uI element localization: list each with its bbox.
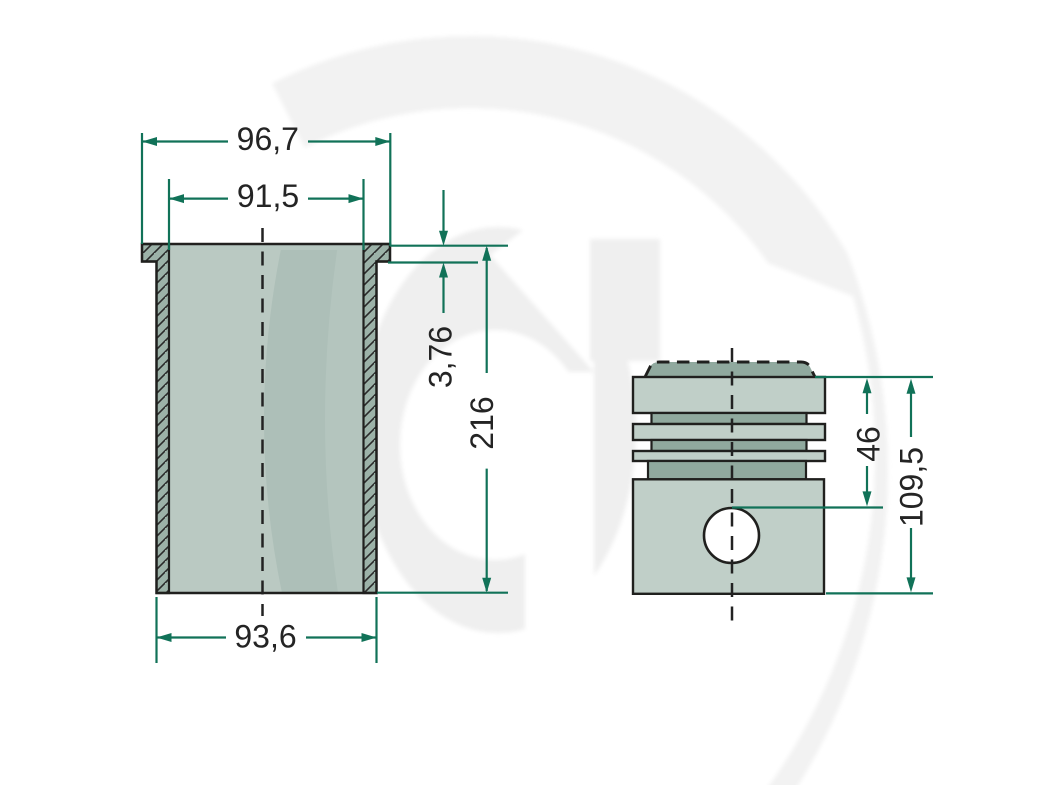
dim 93,6 left arrow bbox=[157, 633, 172, 642]
dim 3,76 lower arrow bbox=[442, 276, 444, 313]
dim 216 line lower bbox=[486, 469, 488, 591]
liner right wall hatch bbox=[364, 244, 391, 593]
svg-text:96,7: 96,7 bbox=[237, 121, 299, 157]
dim 46 bottom arrow bbox=[866, 466, 868, 492]
dim 3,76 upper arrow bbox=[442, 190, 444, 232]
svg-text:216: 216 bbox=[464, 396, 500, 449]
liner cavity shade mid bbox=[264, 244, 364, 593]
dim 91,5 right extension line bbox=[362, 179, 364, 250]
dim 3,76 bottom reference line bbox=[388, 261, 478, 263]
dim 93,6 right arrow bbox=[362, 633, 377, 642]
piston pin hole bbox=[704, 508, 759, 563]
dim 96,7 left extension line bbox=[141, 133, 143, 244]
dim 109,5 bottom reference line bbox=[826, 592, 933, 594]
dim 96,7 line bbox=[142, 140, 228, 142]
dim 96,7 right arrow bbox=[375, 137, 390, 146]
watermark G counter bbox=[400, 330, 590, 560]
piston groove 3 bbox=[648, 461, 806, 479]
liner flange fill bbox=[142, 244, 390, 262]
dim 216 bottom reference line bbox=[377, 592, 508, 594]
watermark G bar bbox=[590, 239, 660, 361]
piston ring 3 bbox=[633, 451, 825, 461]
piston crown bbox=[645, 362, 815, 377]
dim 109,5 top arrow bbox=[910, 393, 912, 438]
piston centerline bbox=[731, 348, 734, 623]
dim 216 bottom arrow bbox=[482, 578, 491, 593]
liner outline bbox=[142, 244, 390, 593]
dim 109,5 bottom arrow bbox=[910, 528, 912, 578]
dim 91,5 left extension line bbox=[168, 179, 170, 250]
liner left wall hatch bbox=[142, 244, 169, 593]
dim 91,5 right arrow bbox=[349, 194, 364, 203]
piston skirt bbox=[633, 479, 824, 594]
piston land 1 bbox=[633, 377, 825, 413]
dim 96,7 right extension line bbox=[389, 133, 391, 246]
dim 46 mid reference line bbox=[732, 506, 883, 508]
dim 3,76 top reference line bbox=[390, 245, 508, 247]
watermark G body bbox=[360, 227, 636, 633]
watermark swoosh band bbox=[272, 36, 888, 785]
svg-text:3,76: 3,76 bbox=[423, 326, 459, 388]
svg-text:91,5: 91,5 bbox=[237, 178, 299, 214]
piston groove 1 bbox=[652, 413, 807, 424]
dim 46 top reference line bbox=[815, 376, 933, 378]
dim 93,6 right extension line bbox=[375, 597, 377, 663]
svg-text:93,6: 93,6 bbox=[234, 618, 296, 654]
dim 93,6 left extension line bbox=[155, 597, 157, 663]
dim 216 line upper bbox=[486, 248, 488, 373]
dim 91,5 left arrow bbox=[169, 194, 184, 203]
dim 96,7 left arrow bbox=[142, 137, 157, 146]
dim 46 top arrow bbox=[866, 392, 868, 414]
piston ring 2 bbox=[633, 424, 825, 440]
dim 91,5 line bbox=[169, 198, 228, 200]
liner cavity shade right bbox=[325, 244, 364, 593]
dim 216 top arrow bbox=[482, 246, 491, 261]
svg-text:46: 46 bbox=[851, 426, 887, 462]
liner cavity fill bbox=[157, 244, 377, 593]
svg-text:109,5: 109,5 bbox=[894, 447, 930, 527]
dim 93,6 line bbox=[157, 636, 227, 638]
watermark G gap bbox=[490, 193, 594, 372]
liner centerline bbox=[261, 228, 264, 616]
piston groove 2 bbox=[652, 440, 807, 451]
